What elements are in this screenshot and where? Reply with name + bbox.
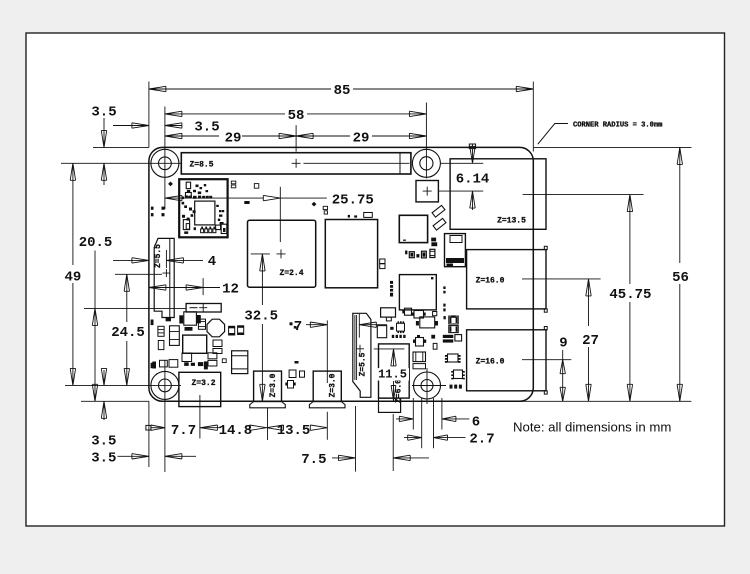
extension line board right edge up (532, 82, 534, 152)
passive pair right of audio (431, 335, 435, 339)
passives between HDMI ports (290, 322, 293, 325)
passive bars right of U10 (431, 238, 436, 242)
dimension 3.5 top vertical (103, 118, 105, 147)
svg-text:4: 4 (208, 254, 216, 270)
extension line hole BL vertical (164, 360, 166, 472)
svg-text:9: 9 (559, 336, 567, 352)
capacitor C3 (413, 364, 426, 369)
capacitor C4 tall (170, 326, 180, 346)
extension line usb inner left (421, 398, 423, 448)
svg-text:Z=3.0: Z=3.0 (328, 373, 337, 397)
svg-text:29: 29 (353, 131, 370, 147)
ethernet jack Z=13.5 (450, 159, 546, 230)
diagonal diodes near PoE (432, 205, 445, 217)
mounting hole TR (412, 149, 440, 177)
micro HDMI0 connector Z=3.0 (254, 371, 282, 401)
svg-text:Z=8.5: Z=8.5 (189, 160, 213, 169)
extension line HDMI1 centerline (326, 320, 328, 383)
SoC U2 Z=2.4 (248, 220, 316, 287)
svg-text:CORNER RADIUS = 3.0mm: CORNER RADIUS = 3.0mm (573, 122, 662, 130)
transistor Q3 right of audio (416, 338, 424, 347)
capacitor small left column (158, 326, 164, 336)
svg-text:7.7: 7.7 (171, 423, 196, 439)
extension line USB2 centerline right (522, 359, 571, 361)
svg-text:32.5: 32.5 (244, 309, 278, 325)
extension line bottom edge left (81, 400, 149, 402)
inductor L1 octagon (207, 319, 225, 337)
dimension 56 right (679, 147, 681, 263)
components between USB stacks (420, 317, 435, 328)
capacitor C2 (413, 352, 426, 362)
passives around PMIC (198, 319, 205, 329)
USB controller IC U10 (399, 215, 427, 242)
passives bottom right (450, 385, 453, 389)
svg-text:Z=5.5: Z=5.5 (359, 352, 368, 376)
USB3 stack Z=16.0 (467, 250, 546, 309)
svg-text:Z=3.0: Z=3.0 (269, 373, 278, 397)
dimension 29 left (165, 135, 219, 137)
svg-text:Z=5.5: Z=5.5 (154, 244, 163, 268)
board outline 85x56 rounded corners (149, 147, 533, 401)
svg-text:25.75: 25.75 (332, 193, 374, 209)
transistor Q2 sot23 (414, 311, 424, 319)
dimension 4 SD card (113, 259, 149, 261)
passive square under PHY (405, 308, 412, 315)
passive row below U10 (405, 251, 407, 255)
SDRAM U3 (325, 220, 377, 288)
passives above SoC (244, 201, 249, 204)
svg-text:6: 6 (472, 415, 480, 431)
dimension 11.5 audio (391, 349, 396, 366)
svg-text:Z=16.0: Z=16.0 (476, 357, 505, 366)
dimension 27 right (588, 279, 590, 326)
passives under DSI left edge (151, 320, 154, 326)
extension line hole TR vertical (425, 103, 427, 179)
svg-text:20.5: 20.5 (79, 235, 113, 251)
dimension 7.7 (146, 425, 151, 430)
passives above SDRAM (348, 215, 350, 218)
dimension 3.5 top horizontal (113, 125, 149, 127)
extension line ethernet centerline right (523, 194, 644, 196)
extension line usb inner right (433, 398, 435, 448)
passives right of SDRAM (380, 259, 385, 264)
svg-text:Z=16.0: Z=16.0 (476, 276, 505, 285)
dimension 12 DSI (149, 287, 203, 289)
extension line SoC centerline vertical (279, 187, 281, 242)
wireless module U1 (179, 179, 227, 237)
audio AV jack Z=6.0 (379, 344, 410, 398)
svg-text:3.5: 3.5 (91, 450, 116, 466)
extension line board left edge down (148, 401, 150, 467)
passive left of U7 (390, 327, 393, 330)
extension line audio jack reference y348.9 (374, 348, 405, 350)
component with side tabs above USB-C (184, 312, 197, 325)
extension line SD card centerline horizontal (115, 273, 162, 275)
ethernet PHY U4 (399, 275, 436, 310)
extension line audio centerline down (392, 414, 394, 471)
svg-text:85: 85 (334, 83, 351, 99)
extension line top edge right (533, 146, 691, 148)
svg-text:14.8: 14.8 (219, 423, 253, 439)
dimension 14.8 (199, 427, 201, 429)
component row above USB-C (152, 362, 156, 369)
extension line GPIO mid vertical (295, 125, 297, 151)
extension line USB3 centerline right (522, 278, 601, 280)
test pad strip (390, 281, 393, 297)
extension line CSI 7dim vertical (358, 314, 360, 338)
svg-text:27: 27 (582, 333, 599, 349)
extension line usb post right (441, 398, 443, 430)
svg-text:11.5: 11.5 (378, 368, 407, 382)
passives left edge group (151, 207, 154, 210)
dimension 29 right (296, 135, 350, 137)
micro HDMI1 connector Z=3.0 (313, 371, 341, 401)
svg-text:45.75: 45.75 (609, 287, 651, 303)
svg-text:Note: all dimensions in mm: Note: all dimensions in mm (513, 420, 671, 435)
dimension 85 top (149, 88, 331, 90)
USB3 hub U5 (445, 234, 466, 267)
IC U9 with pins (454, 370, 463, 379)
extension line board left edge up (148, 82, 150, 148)
IC with pins U7 (397, 323, 405, 331)
extension line CSI centerline down (355, 406, 357, 472)
svg-text:3.5: 3.5 (91, 105, 116, 121)
antenna parts right of wireless module (231, 181, 236, 184)
mounting hole BR (414, 372, 441, 399)
extension line hole TL vertical (164, 107, 166, 210)
extension line HDMI0 centerline down (267, 408, 269, 440)
dimension 32.5 (260, 254, 265, 271)
DSI display connector (186, 304, 221, 313)
dimension 13.5 (267, 425, 284, 430)
svg-text:6.14: 6.14 (456, 171, 490, 187)
extension line SoC centerline horizontal (251, 253, 270, 255)
extension line DSI centerline horizontal (84, 307, 186, 309)
micro SD card socket Z=5.5 (154, 238, 174, 317)
USB2 stack Z=16.0 (467, 330, 546, 391)
extension line hole TR centerline right (441, 162, 484, 164)
extension line top hole centerline left (61, 162, 181, 164)
extension line hole BR crosshair (412, 385, 446, 387)
extension line PoE centerline (439, 190, 483, 192)
svg-text:3.5: 3.5 (91, 434, 116, 450)
mounting hole TL (151, 149, 179, 177)
extension line SD centerline vertical (165, 250, 167, 268)
GPIO header Z=8.5 (181, 153, 411, 174)
passives right of PHY (443, 286, 445, 289)
svg-text:3.5: 3.5 (194, 119, 219, 135)
dimension 49 left (72, 163, 74, 265)
USB-C power connector Z=3.2 (179, 372, 221, 406)
dimension 6 usb posts (396, 418, 413, 420)
mounting hole BL (151, 371, 179, 399)
svg-text:7.5: 7.5 (301, 452, 326, 468)
dimension 6.14 (469, 144, 475, 149)
dimension 45.75 right (629, 195, 631, 284)
svg-text:Z=2.4: Z=2.4 (279, 269, 303, 278)
svg-text:7: 7 (294, 319, 302, 335)
extension line bottom edge right (520, 400, 691, 402)
dimension 25.75 SoC (165, 195, 182, 200)
CSI camera connector Z=5.5 (353, 313, 371, 397)
IC U8 with pins (448, 354, 459, 362)
svg-text:24.5: 24.5 (111, 325, 145, 341)
PMIC U6 (183, 335, 207, 353)
dimension 58 (165, 113, 285, 115)
corner radius callout (538, 124, 568, 145)
passive D1 diamond (168, 181, 173, 186)
extension line USB-C centerline down (199, 395, 201, 439)
PoE header (416, 181, 438, 202)
component monitor-shape above audio (381, 308, 396, 317)
svg-text:2.7: 2.7 (469, 432, 494, 448)
extension line hole centerline bottom left (65, 384, 181, 386)
extension line top left edge (93, 146, 149, 148)
capacitor C1 (232, 351, 248, 374)
svg-text:13.5: 13.5 (277, 423, 311, 439)
dimension 3.5 bottom vertical (103, 370, 105, 385)
passive near Q2 (433, 312, 437, 316)
component square left of audio (377, 326, 386, 338)
svg-text:Z=13.5: Z=13.5 (497, 216, 526, 225)
svg-text:12: 12 (222, 281, 239, 297)
extension line DSI dim vertical (202, 278, 204, 295)
passive bars top right of audio (443, 335, 454, 338)
svg-text:Z=3.2: Z=3.2 (191, 379, 215, 388)
dimension 2.7 (404, 437, 422, 439)
svg-text:58: 58 (288, 108, 305, 124)
svg-text:56: 56 (672, 270, 689, 286)
transistor Q1 sot23 (288, 381, 294, 389)
svg-text:29: 29 (225, 131, 242, 147)
svg-text:49: 49 (64, 270, 81, 286)
passives row under PHY (392, 335, 394, 338)
extension line usb post left (412, 398, 414, 430)
svg-text:Z=6.0: Z=6.0 (395, 379, 404, 403)
dimension 24.5 left (126, 274, 128, 322)
